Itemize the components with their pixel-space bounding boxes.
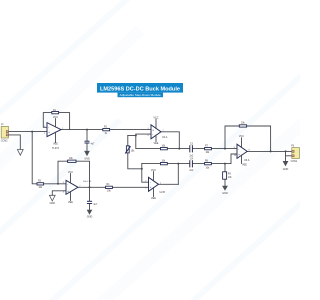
- svg-text:-: -: [152, 132, 153, 136]
- svg-text:7: 7: [79, 186, 80, 188]
- svg-text:GND: GND: [84, 157, 90, 160]
- svg-text:7: 7: [163, 130, 164, 132]
- svg-text:Adjustable Step-Down Module: Adjustable Step-Down Module: [120, 93, 162, 97]
- svg-text:5: 5: [148, 128, 149, 130]
- svg-text:VEE: VEE: [242, 164, 247, 167]
- svg-text:LM2596S DC-DC Buck Module: LM2596S DC-DC Buck Module: [100, 86, 180, 92]
- svg-text:TL072: TL072: [52, 147, 60, 150]
- svg-text:VCC: VCC: [153, 117, 158, 120]
- svg-text:VEE: VEE: [154, 142, 159, 145]
- svg-text:-: -: [48, 125, 49, 129]
- svg-text:VCC: VCC: [239, 135, 244, 138]
- svg-text:6: 6: [148, 135, 149, 137]
- svg-text:CON1: CON1: [291, 160, 298, 163]
- svg-text:VCC: VCC: [68, 171, 73, 174]
- svg-text:8: 8: [249, 150, 250, 152]
- svg-text:1: 1: [62, 128, 63, 130]
- svg-text:U2.A: U2.A: [162, 136, 168, 139]
- svg-text:10: 10: [234, 155, 236, 157]
- svg-text:VEE: VEE: [53, 143, 58, 146]
- svg-text:-: -: [238, 147, 239, 151]
- svg-text:6: 6: [63, 191, 64, 193]
- svg-text:10k 0.1%: 10k 0.1%: [83, 181, 92, 183]
- svg-text:VEE: VEE: [68, 201, 73, 204]
- svg-text:2: 2: [44, 126, 45, 128]
- svg-text:U3.A: U3.A: [244, 159, 250, 162]
- svg-text:VCC: VCC: [151, 169, 156, 172]
- svg-text:VEE: VEE: [151, 197, 156, 200]
- svg-text:-: -: [150, 180, 151, 184]
- svg-text:1: 1: [160, 183, 161, 185]
- svg-text:3: 3: [44, 133, 45, 135]
- svg-text:-: -: [67, 182, 68, 186]
- svg-text:GND: GND: [50, 202, 56, 205]
- svg-text:CON2: CON2: [1, 139, 8, 142]
- svg-text:GND: GND: [283, 168, 289, 171]
- svg-text:VCC: VCC: [53, 116, 58, 119]
- svg-text:GND: GND: [87, 215, 93, 218]
- svg-text:5: 5: [63, 182, 64, 184]
- svg-text:U2.B: U2.B: [160, 191, 166, 194]
- svg-text:9: 9: [234, 147, 235, 149]
- svg-text:GND: GND: [222, 192, 228, 195]
- svg-text:2: 2: [145, 181, 146, 183]
- svg-text:3: 3: [145, 188, 146, 190]
